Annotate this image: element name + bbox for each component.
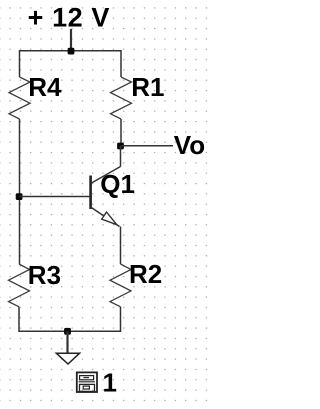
junction base node [16, 193, 23, 200]
resistor R3 [9, 264, 30, 307]
caption figure glyph [77, 372, 97, 392]
wire R2 to bottom rail [120, 307, 122, 332]
wire base lead [20, 196, 91, 198]
svg-text:R3: R3 [28, 260, 61, 290]
wire emitter to R2 [120, 227, 122, 265]
svg-text:Vo: Vo [174, 130, 205, 160]
junction ground node [64, 328, 71, 335]
wire ground stub [66, 331, 68, 352]
svg-text:Q1: Q1 [100, 169, 135, 199]
svg-text:R1: R1 [131, 72, 164, 102]
junction top node [68, 48, 75, 55]
ground [56, 353, 79, 364]
wire left mid [19, 119, 21, 264]
svg-text:+ 12 V: + 12 V [28, 3, 110, 33]
junction collector node [117, 143, 124, 150]
wire R3 to bottom rail [18, 307, 20, 332]
resistor R4 [9, 77, 30, 119]
wire power stub [70, 29, 72, 51]
wire R1 to collector node [120, 119, 122, 146]
svg-text:R2: R2 [129, 259, 162, 289]
resistor R2 [110, 264, 131, 307]
transistor Q1 [91, 146, 135, 227]
svg-text:1: 1 [103, 367, 117, 397]
resistor R1 [111, 77, 132, 119]
wire top rail [20, 51, 122, 77]
wire bottom rail [19, 330, 121, 332]
wire Vo lead [121, 145, 173, 147]
svg-text:R4: R4 [28, 72, 62, 102]
